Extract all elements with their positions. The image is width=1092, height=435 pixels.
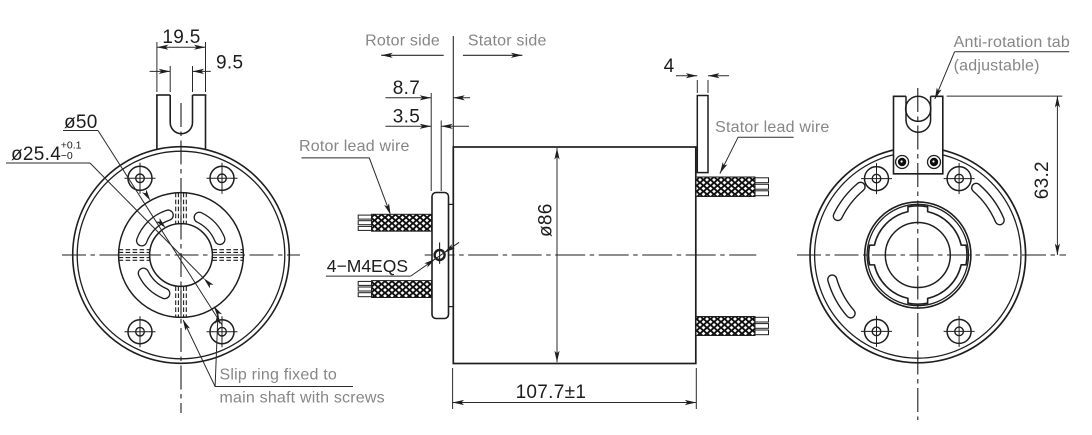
svg-text:Rotor lead wire: Rotor lead wire — [299, 138, 410, 155]
dimension ø25.4 leader — [6, 162, 90, 164]
left view: arc slot NE — [199, 217, 219, 239]
svg-text:Anti-rotation tab: Anti-rotation tab — [954, 34, 1070, 51]
left view: arc slot SW — [143, 273, 164, 293]
left view: arc slot NW — [142, 215, 168, 240]
middle view: M4 screw on flange — [439, 242, 441, 263]
middle view: stator body — [453, 147, 696, 364]
left view: bore circle (ø25.4) — [150, 224, 213, 287]
svg-text:3.5: 3.5 — [393, 107, 420, 128]
left view: rim circle — [77, 151, 285, 359]
middle view: stator lead wire bundle lower — [755, 317, 769, 322]
left view: bolt hole 1 — [125, 163, 156, 194]
dimension 107.7±1 — [453, 368, 697, 409]
right view: bolt hole 4 — [944, 316, 975, 347]
svg-text:19.5: 19.5 — [162, 27, 200, 48]
left view: horizontal centerline — [62, 254, 300, 256]
right view: rim circle — [815, 152, 1021, 358]
svg-text:4−M4EQS: 4−M4EQS — [327, 256, 408, 276]
right view: tab pin — [906, 96, 931, 121]
right view: bolt hole 3 — [861, 316, 892, 347]
middle view: anti-rotation tab (side) — [697, 96, 708, 173]
right view: arc slot SW — [832, 280, 850, 314]
dimension ø86 — [556, 148, 558, 362]
right view: castellated hub profile — [869, 206, 967, 304]
right view: vertical centerline — [917, 88, 919, 420]
right view: hub outer circles — [865, 202, 971, 308]
right view: bore circle — [885, 223, 950, 288]
dimension 8.7 — [385, 93, 470, 191]
svg-text:−0: −0 — [61, 150, 73, 162]
middle view: horizontal centerline — [425, 254, 757, 256]
middle view: rotor lead wire bundle lower — [358, 281, 371, 285]
right view: bolt hole 1 — [861, 163, 892, 194]
middle view: stator lead wire bundle upper — [755, 178, 769, 183]
left view: outer flange circle — [73, 147, 290, 364]
svg-text:63.2: 63.2 — [1032, 161, 1053, 199]
left view: bolt hole 2 — [207, 163, 238, 194]
svg-text:ø86: ø86 — [536, 203, 557, 237]
left view: screw band N — [175, 193, 177, 224]
dimension 19.5 — [157, 42, 206, 92]
svg-text:107.7±1: 107.7±1 — [516, 382, 587, 403]
right view: bolt hole 2 — [944, 163, 975, 194]
left view: screw band E — [212, 249, 243, 251]
left view: bolt hole 4 — [207, 316, 238, 347]
dimension ø50 leader — [63, 130, 98, 132]
svg-text:9.5: 9.5 — [216, 52, 243, 73]
svg-text:ø50: ø50 — [64, 112, 98, 133]
svg-text:Stator side: Stator side — [468, 32, 547, 49]
left view: rotor disc circle (ø50) — [119, 193, 244, 318]
svg-text:Rotor side: Rotor side — [365, 32, 440, 49]
right view: tab screw right — [928, 156, 941, 169]
svg-text:Stator lead wire: Stator lead wire — [715, 119, 829, 136]
left view: screw band S — [175, 286, 177, 317]
dimension 63.2 — [947, 96, 1063, 255]
right view: horizontal centerline — [797, 254, 1066, 256]
middle view: rotor/stator divider line — [452, 36, 454, 147]
right view: arc slot NE — [976, 188, 1000, 220]
left view: fork outline — [156, 95, 206, 150]
dimension 3.5 — [385, 125, 469, 127]
left view: vertical centerline — [180, 103, 182, 413]
svg-text:(adjustable): (adjustable) — [954, 58, 1040, 75]
right view: tab screw left — [896, 156, 909, 169]
right view: anti-rotation tab block — [894, 96, 943, 174]
dimension 9.5 — [150, 66, 211, 92]
right view: outer circle — [810, 147, 1026, 363]
svg-text:8.7: 8.7 — [393, 78, 420, 99]
left view: bolt hole 3 — [125, 316, 156, 347]
svg-text:Slip ring fixed to: Slip ring fixed to — [220, 366, 337, 383]
right view: arc slot NW — [838, 187, 861, 216]
label: slip ring fixed to main shaft with screws — [183, 321, 353, 387]
middle view: spacer step — [449, 204, 454, 306]
svg-text:4: 4 — [664, 56, 675, 77]
dimension 4 — [676, 76, 729, 93]
middle view: rotor flange — [432, 193, 449, 319]
svg-text:ø25.4: ø25.4 — [11, 144, 61, 165]
left view: screw band W — [119, 249, 150, 251]
middle view: rotor lead wire bundle upper — [358, 215, 371, 219]
label 4-M4EQS + leader — [326, 275, 411, 277]
svg-text:main shaft with screws: main shaft with screws — [220, 390, 385, 407]
